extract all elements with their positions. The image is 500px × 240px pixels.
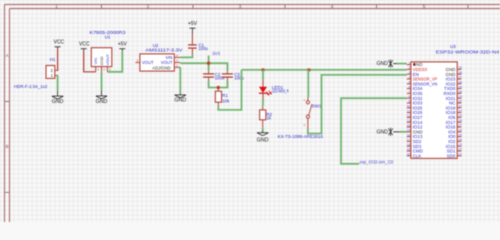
svg-text:8: 8 (408, 95, 410, 99)
svg-text:11: 11 (407, 109, 411, 113)
svg-text:19: 19 (407, 148, 411, 152)
svg-text:R1: R1 (222, 93, 228, 98)
svg-text:3: 3 (408, 71, 410, 75)
svg-text:LED-0603_R: LED-0603_R (272, 88, 289, 93)
svg-text:10k: 10k (222, 99, 230, 104)
svg-text:5: 5 (408, 81, 410, 85)
svg-text:18: 18 (407, 143, 411, 147)
svg-text:ADJ/GND: ADJ/GND (152, 65, 170, 70)
svg-text:21: 21 (458, 153, 462, 157)
svg-text:25: 25 (458, 133, 462, 137)
svg-text:GND: GND (99, 56, 104, 65)
svg-text:14: 14 (407, 124, 411, 128)
svg-text:33: 33 (458, 95, 462, 99)
svg-text:VCC: VCC (54, 40, 65, 46)
svg-text:KX-TS-1088-ARE2616: KX-TS-1088-ARE2616 (278, 134, 324, 139)
svg-text:VIN: VIN (93, 58, 98, 65)
svg-text:35: 35 (458, 85, 462, 89)
svg-text:GND: GND (376, 61, 388, 67)
svg-text:17: 17 (407, 138, 411, 142)
svg-text:GND: GND (52, 99, 64, 105)
svg-text:1: 1 (55, 4, 58, 9)
svg-text:31: 31 (458, 105, 462, 109)
svg-text:36: 36 (458, 81, 462, 85)
svg-text:22: 22 (458, 148, 462, 152)
svg-text:16: 16 (407, 133, 411, 137)
svg-text:GND: GND (257, 137, 269, 143)
svg-text:24: 24 (458, 138, 462, 142)
svg-text:12: 12 (407, 114, 411, 118)
svg-text:+5V: +5V (118, 42, 128, 48)
svg-text:U2: U2 (153, 43, 159, 48)
svg-text:GND: GND (376, 129, 388, 135)
svg-text:GND: GND (96, 99, 108, 105)
svg-text:4: 4 (331, 4, 334, 9)
svg-text:VOUT: VOUT (105, 54, 110, 66)
svg-text:SD0: SD0 (447, 153, 456, 158)
svg-text:2: 2 (147, 4, 150, 9)
svg-text:5: 5 (423, 4, 426, 9)
svg-text:6: 6 (408, 85, 410, 89)
svg-text:H1: H1 (50, 57, 56, 62)
svg-text:B: B (6, 144, 9, 149)
svg-text:CLK: CLK (413, 153, 422, 158)
svg-text:30: 30 (458, 109, 462, 113)
svg-text:3V3: 3V3 (212, 51, 220, 56)
svg-text:10: 10 (407, 105, 411, 109)
svg-text:1: 1 (408, 61, 410, 65)
svg-text:26: 26 (458, 129, 462, 133)
svg-text:100u: 100u (198, 46, 208, 51)
svg-text:esp_IO32-sim_CD: esp_IO32-sim_CD (360, 160, 394, 165)
svg-text:A: A (6, 53, 9, 58)
svg-text:9: 9 (408, 100, 410, 104)
svg-text:32: 32 (458, 100, 462, 104)
svg-text:2: 2 (408, 66, 410, 70)
svg-text:27: 27 (458, 124, 462, 128)
svg-text:37: 37 (458, 76, 462, 80)
svg-text:ESP32-WROOM-32D-N4: ESP32-WROOM-32D-N4 (436, 50, 500, 56)
svg-text:34: 34 (458, 90, 462, 94)
svg-text:23: 23 (458, 143, 462, 147)
svg-text:VCC: VCC (79, 42, 90, 48)
svg-text:29: 29 (458, 114, 462, 118)
svg-text:7: 7 (408, 90, 410, 94)
svg-text:3: 3 (239, 4, 242, 9)
svg-text:U1: U1 (105, 34, 111, 39)
svg-text:SW1: SW1 (312, 103, 322, 108)
svg-text:28: 28 (458, 119, 462, 123)
svg-text:20: 20 (407, 153, 411, 157)
svg-text:GND: GND (174, 98, 186, 104)
svg-text:39: 39 (458, 66, 462, 70)
svg-text:4: 4 (408, 76, 410, 80)
svg-text:HDR-F-2.54_1x2: HDR-F-2.54_1x2 (14, 84, 48, 89)
svg-text:U3: U3 (450, 44, 456, 49)
svg-text:38: 38 (458, 71, 462, 75)
svg-text:100u: 100u (234, 76, 244, 81)
svg-text:+5V: +5V (188, 21, 198, 27)
svg-text:13: 13 (407, 119, 411, 123)
svg-text:15: 15 (407, 129, 411, 133)
